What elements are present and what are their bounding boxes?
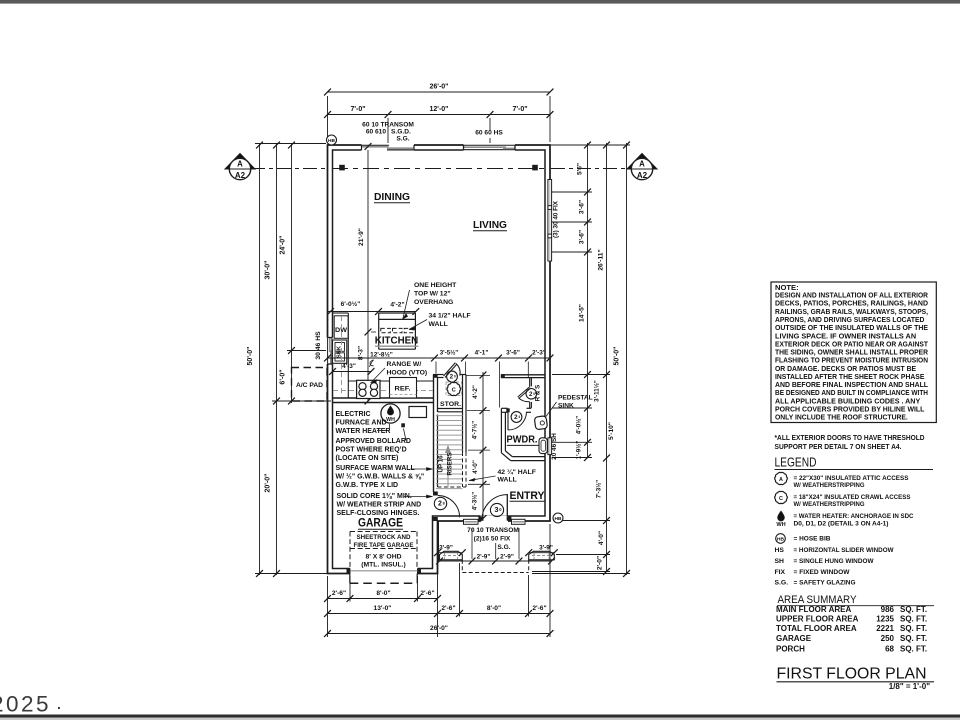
svg-text:0: 0 — [454, 375, 456, 379]
sheetrock dashed box — [350, 531, 417, 533]
post marker right — [532, 165, 538, 171]
right extension lines — [551, 144, 630, 146]
svg-text:A: A — [237, 160, 243, 169]
svg-text:UP 16: UP 16 — [438, 455, 445, 473]
svg-text:2'-6": 2'-6" — [420, 590, 434, 597]
top extension lines — [327, 96, 329, 142]
window 60 60 HS (top wall) — [464, 144, 516, 151]
svg-text:60 60 HS: 60 60 HS — [475, 130, 503, 137]
svg-text:30'-0": 30'-0" — [265, 261, 272, 280]
svg-text:C: C — [779, 496, 783, 502]
svg-text:6'-0": 6'-0" — [280, 369, 287, 384]
svg-text:8'-0": 8'-0" — [487, 605, 501, 612]
svg-text:SINK: SINK — [558, 403, 574, 410]
svg-text:R & S: R & S — [535, 385, 542, 402]
svg-text:.: . — [57, 696, 61, 712]
svg-text:S.G.D.: S.G.D. — [391, 129, 411, 136]
svg-text:SQ. FT.: SQ. FT. — [900, 605, 927, 614]
svg-text:STOR.: STOR. — [440, 401, 461, 408]
door 2-8 swing — [438, 496, 460, 518]
svg-text:8'-3": 8'-3" — [358, 346, 365, 360]
svg-text:24'-0": 24'-0" — [280, 236, 287, 255]
legend water heater — [778, 511, 785, 521]
svg-text:6'-0½": 6'-0½" — [341, 300, 361, 308]
svg-text:8'-0": 8'-0" — [376, 590, 390, 597]
porch dim row — [440, 560, 552, 562]
svg-text:= HORIZONTAL SLIDER WINDOW: = HORIZONTAL SLIDER WINDOW — [794, 547, 895, 554]
pwdr walls — [500, 408, 502, 453]
svg-text:3'-9": 3'-9" — [439, 545, 453, 552]
svg-text:4'-0": 4'-0" — [472, 460, 479, 474]
svg-text:70 10 TRANSOM: 70 10 TRANSOM — [467, 527, 519, 534]
svg-text:1235: 1235 — [876, 615, 894, 624]
A/C pad dashed — [292, 368, 328, 402]
dim row 7-0 / 12-0 / 7-0 — [328, 114, 551, 116]
svg-text:4'-3": 4'-3" — [342, 363, 356, 370]
svg-text:8' X 8' OHD: 8' X 8' OHD — [365, 554, 401, 561]
left extension lines — [255, 143, 326, 145]
legend attic access — [775, 472, 788, 484]
kitchen upper dim line — [328, 311, 416, 313]
garage OHD panel — [350, 570, 418, 572]
svg-text:APPROVED BOLLARD: APPROVED BOLLARD — [336, 438, 411, 445]
furnace box — [409, 407, 427, 418]
svg-text:SQ. FT.: SQ. FT. — [900, 645, 927, 654]
centerline symbol — [370, 361, 374, 366]
sliding glass door opening (top wall) — [362, 144, 415, 152]
svg-text:3: 3 — [494, 505, 498, 514]
bottom dim row 2 — [328, 613, 551, 615]
svg-text:FURNACE AND: FURNACE AND — [336, 420, 387, 427]
svg-text:13'-0": 13'-0" — [374, 605, 392, 612]
svg-text:GARAGE: GARAGE — [358, 518, 403, 530]
svg-text:SOLID CORE 1⅜" MIN.: SOLID CORE 1⅜" MIN. — [337, 493, 412, 500]
svg-text:5'-10": 5'-10" — [608, 422, 615, 440]
post marker left — [339, 165, 345, 171]
svg-text:2: 2 — [438, 501, 442, 508]
svg-text:SURFACE WARM WALL: SURFACE WARM WALL — [336, 465, 416, 472]
svg-text:50'-0": 50'-0" — [247, 347, 254, 366]
section line A-A2 — [251, 168, 327, 170]
door tag 3-0 — [490, 503, 503, 516]
svg-text:SQ. FT.: SQ. FT. — [900, 634, 927, 643]
svg-text:HB: HB — [555, 516, 562, 522]
ext lines from y358 dim to walls — [435, 362, 437, 374]
stor door 2-0 — [444, 363, 456, 376]
svg-text:SQ. FT.: SQ. FT. — [900, 624, 927, 633]
svg-text:FIX: FIX — [775, 569, 786, 576]
svg-text:S.G.: S.G. — [497, 544, 510, 551]
svg-text:W/ WEATHER STRIP AND: W/ WEATHER STRIP AND — [337, 502, 422, 509]
svg-text:60 610: 60 610 — [366, 129, 387, 136]
svg-text:G.W.B. TYPE X LID: G.W.B. TYPE X LID — [336, 482, 399, 489]
svg-text:FIRE TAPE GARAGE: FIRE TAPE GARAGE — [354, 542, 414, 549]
svg-text:4'-2": 4'-2" — [390, 302, 404, 309]
stor room walls — [434, 374, 444, 376]
svg-text:W/ WEATHERSTRIPPING: W/ WEATHERSTRIPPING — [794, 482, 865, 489]
up arrow — [447, 452, 449, 488]
garage door opening — [350, 567, 418, 575]
svg-text:SUPPORT PER DETAIL 7 ON SHEET: SUPPORT PER DETAIL 7 ON SHEET A4. — [775, 444, 902, 451]
svg-text:= 18"X24" INSULATED CRAWL ACCE: = 18"X24" INSULATED CRAWL ACCESS — [794, 494, 911, 501]
svg-text:HB: HB — [328, 138, 335, 144]
svg-text:26'-0": 26'-0" — [430, 625, 448, 632]
svg-text:*ALL EXTERIOR DOORS TO HAVE TH: *ALL EXTERIOR DOORS TO HAVE THRESHOLD — [775, 435, 925, 442]
svg-text:REF.: REF. — [395, 386, 411, 393]
porch pier left — [440, 551, 463, 560]
svg-text:= SINGLE HUNG WINDOW: = SINGLE HUNG WINDOW — [794, 558, 875, 565]
stairs treads — [436, 415, 463, 417]
svg-text:TOP W/ 12": TOP W/ 12" — [414, 291, 451, 298]
pwdr door 2-4 — [507, 412, 509, 430]
svg-text:14'-5": 14'-5" — [579, 304, 586, 322]
svg-text:3'-9": 3'-9" — [539, 545, 553, 552]
sidelite window right — [512, 519, 526, 524]
svg-text:60 10 TRANSOM: 60 10 TRANSOM — [362, 122, 414, 129]
svg-text:21'-9": 21'-9" — [358, 228, 365, 246]
svg-text:TOTAL FLOOR AREA: TOTAL FLOOR AREA — [776, 624, 857, 633]
svg-text:2'-3": 2'-3" — [532, 350, 546, 357]
dishwasher — [334, 316, 348, 339]
kitchen south wall — [333, 397, 434, 399]
dim 26-0 top — [328, 91, 551, 93]
svg-text:(3) 30 40 FIX: (3) 30 40 FIX — [552, 200, 559, 238]
svg-text:2221: 2221 — [876, 624, 894, 633]
bottom dim row 1 — [328, 598, 438, 600]
svg-text:7'-3½": 7'-3½" — [596, 480, 603, 499]
svg-text:2'-0": 2'-0" — [597, 556, 604, 570]
svg-text:3'-6": 3'-6" — [579, 230, 586, 244]
svg-text:W/ ½" G.W.B. WALLS & ⅝": W/ ½" G.W.B. WALLS & ⅝" — [336, 473, 425, 481]
svg-text:(MTL. INSUL.): (MTL. INSUL.) — [361, 562, 406, 569]
svg-text:PORCH: PORCH — [776, 645, 805, 654]
front door leaf+swing — [506, 494, 508, 521]
water heater — [381, 404, 400, 423]
island cooktop dashes — [381, 328, 391, 332]
svg-text:RANGE W/: RANGE W/ — [387, 361, 422, 368]
svg-text:1'-9½": 1'-9½" — [576, 441, 583, 460]
svg-text:4'-2": 4'-2" — [472, 385, 479, 399]
svg-text:WATER HEATER: WATER HEATER — [336, 428, 391, 435]
svg-text:A: A — [779, 477, 783, 483]
svg-text:4: 4 — [518, 415, 520, 419]
door 2-8 opening jambs — [433, 492, 438, 496]
svg-text:W/ WEATHERSTRIPPING: W/ WEATHERSTRIPPING — [794, 501, 865, 508]
exterior wall inner face — [333, 150, 546, 569]
svg-text:A: A — [639, 160, 645, 169]
svg-text:1/8" = 1'-0": 1/8" = 1'-0" — [889, 682, 930, 691]
svg-text:MAIN FLOOR AREA: MAIN FLOOR AREA — [776, 605, 851, 614]
svg-text:3'-6": 3'-6" — [506, 350, 520, 357]
svg-text:(LOCATE ON SITE): (LOCATE ON SITE) — [336, 455, 399, 462]
svg-text:A2: A2 — [637, 171, 648, 180]
svg-text:PWDR.: PWDR. — [507, 434, 538, 446]
svg-text:7'-0": 7'-0" — [350, 106, 365, 113]
svg-text:4'-1": 4'-1" — [475, 350, 489, 357]
svg-text:RISERS: RISERS — [447, 452, 454, 475]
svg-text:4'-7½": 4'-7½" — [472, 421, 479, 440]
dim line y358.5 — [328, 357, 551, 359]
svg-text:42 ¼" HALF: 42 ¼" HALF — [498, 468, 536, 476]
vertical dim 21-9 / 8-3 — [367, 150, 369, 401]
svg-text:GARAGE: GARAGE — [776, 634, 812, 643]
exterior wall outer face — [328, 145, 551, 574]
svg-text:HB: HB — [777, 537, 784, 543]
page bottom border — [0, 715, 960, 718]
pwdr/R&S north wall — [501, 374, 545, 376]
svg-text:26'-0": 26'-0" — [430, 84, 449, 91]
pwdr door 2-4 jamb — [506, 408, 509, 412]
porch extension lines — [471, 528, 473, 559]
range — [357, 380, 380, 398]
svg-text:HOOD (VTO): HOOD (VTO) — [387, 370, 428, 377]
svg-text:A2: A2 — [235, 171, 246, 180]
bollard — [401, 423, 405, 427]
svg-text:KITCHEN: KITCHEN — [375, 335, 419, 347]
svg-text:ONE HEIGHT: ONE HEIGHT — [414, 282, 457, 289]
svg-text:= HOSE BIB: = HOSE BIB — [794, 536, 831, 543]
svg-text:OVERHANG: OVERHANG — [414, 299, 453, 306]
svg-text:WH: WH — [776, 522, 785, 528]
svg-text:2'-6": 2'-6" — [332, 590, 346, 597]
svg-text:D0, D1, D2 (DETAIL 3 ON A4-1): D0, D1, D2 (DETAIL 3 ON A4-1) — [794, 521, 889, 528]
right dim line B — [606, 143, 608, 572]
svg-text:12'-8½": 12'-8½" — [370, 351, 393, 359]
sink — [333, 340, 347, 363]
svg-text:3'-6": 3'-6" — [579, 200, 586, 214]
svg-text:WALL: WALL — [429, 321, 448, 328]
svg-text:S.G.: S.G. — [775, 580, 789, 587]
left dim lines — [259, 143, 261, 575]
crawl access hatch — [446, 382, 462, 396]
svg-text:50'-0": 50'-0" — [614, 347, 621, 366]
svg-text:A/C PAD: A/C PAD — [296, 382, 323, 389]
bottom ext lines — [327, 576, 329, 637]
svg-text:WALL: WALL — [498, 477, 517, 484]
ref — [390, 378, 417, 399]
svg-text:POST WHERE REQ’D: POST WHERE REQ’D — [336, 447, 407, 454]
window 20 46 SH (right wall PWDR) — [547, 438, 552, 455]
svg-text:DINING: DINING — [374, 191, 410, 203]
dim 4-3 — [333, 371, 372, 373]
svg-text:20 46 SH: 20 46 SH — [551, 433, 558, 460]
right dim line C 50-0 — [626, 143, 628, 575]
svg-text:LEGEND: LEGEND — [775, 455, 817, 470]
svg-text:12'-0": 12'-0" — [430, 106, 449, 113]
pedestal sink — [534, 416, 547, 430]
svg-text:2'-9": 2'-9" — [477, 554, 491, 561]
svg-text:3'-11½": 3'-11½" — [594, 380, 601, 402]
svg-text:HS: HS — [775, 547, 785, 554]
svg-text:4'-3½": 4'-3½" — [472, 492, 479, 511]
porch left edge — [438, 521, 440, 561]
section marker A/A2 left — [225, 154, 255, 170]
legend hose bib — [776, 534, 786, 544]
svg-text:250: 250 — [881, 634, 895, 643]
svg-text:PEDESTAL: PEDESTAL — [558, 395, 593, 402]
svg-text:2'-6": 2'-6" — [441, 605, 455, 612]
island — [378, 313, 380, 349]
note box — [771, 282, 936, 423]
front door opening 3-0 — [481, 516, 509, 523]
R&S closet west wall — [529, 378, 531, 387]
svg-text:2025: 2025 — [0, 692, 51, 717]
section marker A/A2 right — [627, 154, 657, 170]
stair/garage wall — [433, 375, 435, 493]
svg-text:986: 986 — [881, 605, 895, 614]
porch dashed outline — [461, 560, 463, 573]
svg-text:S.G.: S.G. — [396, 136, 409, 143]
porch pier right — [529, 551, 555, 560]
svg-text:7'-0": 7'-0" — [512, 106, 527, 113]
svg-text:2'-6": 2'-6" — [532, 605, 546, 612]
left counter — [347, 313, 349, 398]
3-9 pier dims — [438, 552, 463, 554]
svg-text:(2)16 50 FIX: (2)16 50 FIX — [474, 536, 511, 543]
windows (3) 30 40 FIX (right wall) — [547, 180, 552, 262]
svg-text:30 46 HS: 30 46 HS — [315, 331, 322, 360]
bottom dim row 3 26-0 — [328, 633, 551, 635]
sidelite window left — [464, 519, 479, 524]
svg-text:= SAFETY GLAZING: = SAFETY GLAZING — [794, 580, 856, 587]
svg-text:WH: WH — [386, 417, 395, 423]
counter along south wall — [348, 380, 433, 382]
right dim line A — [587, 143, 589, 458]
legend crawl access — [775, 491, 788, 503]
hose bib entry — [553, 513, 563, 523]
R&S door 2-0 — [518, 387, 530, 397]
svg-text:SQ. FT.: SQ. FT. — [900, 615, 927, 624]
svg-text:C: C — [452, 387, 456, 393]
svg-text:LIVING: LIVING — [473, 219, 507, 231]
window 30 46 HS (left wall) — [326, 338, 334, 365]
svg-text:= FIXED WINDOW: = FIXED WINDOW — [794, 569, 851, 576]
svg-text:68: 68 — [885, 645, 894, 654]
svg-text:20'-0": 20'-0" — [265, 474, 272, 493]
svg-text:SHEETROCK AND: SHEETROCK AND — [357, 534, 411, 541]
hose bib top left — [327, 135, 337, 145]
dim line 4-2/4-7/4-0/4-3 — [482, 372, 484, 521]
svg-text:34 1/2" HALF: 34 1/2" HALF — [429, 313, 471, 320]
stair half wall dashed — [462, 452, 464, 487]
svg-text:26'-11": 26'-11" — [598, 249, 605, 270]
upper cabinet dashed lines — [341, 316, 343, 396]
svg-text:ENTRY: ENTRY — [510, 490, 546, 502]
svg-text:ONLY INCLUDE THE ROOF STRUCTUR: ONLY INCLUDE THE ROOF STRUCTURE. — [775, 413, 908, 422]
svg-text:4'-0": 4'-0" — [598, 531, 605, 545]
toilet — [539, 438, 547, 454]
svg-text:SELF-CLOSING HINGES.: SELF-CLOSING HINGES. — [337, 510, 420, 517]
svg-text:= 22"X30" INSULATED ATTIC ACCE: = 22"X30" INSULATED ATTIC ACCESS — [794, 475, 909, 482]
svg-text:UPPER FLOOR AREA: UPPER FLOOR AREA — [776, 615, 859, 624]
page top border — [0, 0, 960, 4]
svg-text:4'-0½": 4'-0½" — [576, 416, 583, 435]
svg-text:3'-5½": 3'-5½" — [440, 350, 459, 357]
svg-text:FIRST FLOOR PLAN: FIRST FLOOR PLAN — [777, 666, 927, 683]
svg-text:ELECTRIC: ELECTRIC — [336, 411, 371, 418]
svg-text:= WATER HEATER: ANCHORAGE IN S: = WATER HEATER: ANCHORAGE IN SDC — [794, 513, 914, 520]
svg-text:2'-9": 2'-9" — [500, 554, 514, 561]
svg-text:SH: SH — [775, 558, 785, 565]
